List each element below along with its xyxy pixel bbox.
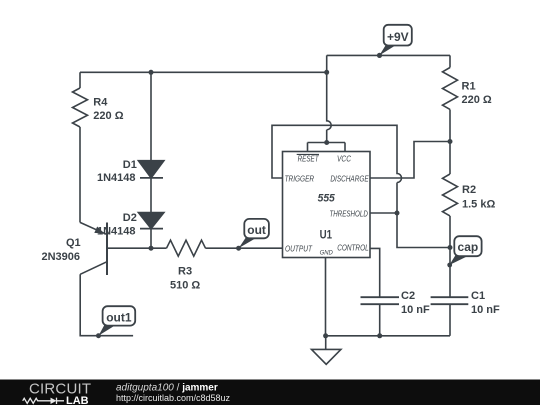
wire D2 cathode down to base net xyxy=(150,229,152,249)
svg-text:TRIGGER: TRIGGER xyxy=(285,174,315,183)
node dot RESET-VCC xyxy=(324,140,329,145)
U1 pin labels xyxy=(285,154,370,256)
svg-text:220 Ω: 220 Ω xyxy=(93,110,123,122)
svg-text:RESET: RESET xyxy=(298,155,320,164)
svg-text:C1: C1 xyxy=(471,290,485,302)
label D1 xyxy=(97,159,137,184)
resistor R4 xyxy=(73,88,88,127)
wire Q1 base to R3 xyxy=(107,247,167,249)
node dot D2/base/R3 xyxy=(149,246,154,251)
svg-text:D1: D1 xyxy=(123,159,137,171)
node dot C2 bottom xyxy=(377,333,382,338)
svg-text:C2: C2 xyxy=(401,290,415,302)
label R1 xyxy=(462,81,492,107)
wire D1 cathode to D2 anode xyxy=(150,178,152,213)
footer bar xyxy=(0,380,540,405)
capacitor C2 xyxy=(361,297,400,336)
wire DISCHARGE to R1-R2 junction xyxy=(370,142,450,179)
label C1 xyxy=(471,290,500,316)
logo waveform xyxy=(23,398,64,404)
svg-text:1.5 kΩ: 1.5 kΩ xyxy=(462,199,495,211)
label R2 xyxy=(462,184,495,211)
label D2 xyxy=(97,212,137,237)
svg-text:R1: R1 xyxy=(462,81,476,93)
node dot R1/R2/discharge xyxy=(448,139,453,144)
label Q1 xyxy=(42,237,81,263)
svg-text:out: out xyxy=(247,223,266,237)
flag cap xyxy=(447,236,481,267)
svg-text:OUTPUT: OUTPUT xyxy=(285,244,313,253)
svg-text:GND: GND xyxy=(320,249,333,256)
svg-text:DISCHARGE: DISCHARGE xyxy=(330,174,369,183)
wire R4 top stub xyxy=(79,72,81,88)
diode D2 xyxy=(138,213,164,229)
svg-text:D2: D2 xyxy=(123,212,137,224)
svg-text:220 Ω: 220 Ω xyxy=(462,94,492,106)
wire TRIGGER loop with hop xyxy=(272,125,450,247)
wire +9V vertical with hop xyxy=(327,55,332,142)
node dot left rail/+9V vertical xyxy=(324,70,329,75)
wire R3 to OUTPUT pin xyxy=(205,247,282,249)
label R3 xyxy=(170,266,200,292)
op box U1 555 xyxy=(283,152,371,258)
node dot GND bus xyxy=(323,333,328,338)
svg-text:1N4148: 1N4148 xyxy=(97,172,136,184)
diode D1 xyxy=(138,161,164,178)
flag +9V xyxy=(377,25,412,58)
resistor R1 xyxy=(443,55,458,141)
wire left rail horizontal xyxy=(80,71,327,73)
svg-text:Q1: Q1 xyxy=(66,237,81,249)
svg-text:THRESHOLD: THRESHOLD xyxy=(330,209,368,218)
resistor R3 xyxy=(167,240,206,256)
svg-text:510 Ω: 510 Ω xyxy=(170,280,200,292)
label R4 xyxy=(93,97,123,123)
node dot R2/C1/cap xyxy=(448,245,453,250)
svg-text:http://circuitlab.com/c8d58uz: http://circuitlab.com/c8d58uz xyxy=(116,393,231,403)
svg-text:CONTROL: CONTROL xyxy=(337,244,369,253)
ground symbol xyxy=(312,336,341,365)
node dot THRESHOLD xyxy=(395,211,400,216)
wire R4 bottom to Q1 emitter corner xyxy=(79,127,81,222)
wire D1 anode from left rail xyxy=(150,72,152,160)
svg-text:+9V: +9V xyxy=(387,30,409,44)
svg-text:U1: U1 xyxy=(320,227,333,241)
wire RESET stub xyxy=(307,143,309,152)
svg-text:555: 555 xyxy=(318,192,336,204)
transistor Q1 xyxy=(80,222,107,275)
node dot D1/left rail xyxy=(149,70,154,75)
resistor R2 xyxy=(443,142,458,248)
flag out1 xyxy=(96,306,135,338)
svg-text:R3: R3 xyxy=(178,266,192,278)
svg-text:out1: out1 xyxy=(106,311,132,325)
capacitor C1 xyxy=(431,248,469,336)
label C2 xyxy=(401,290,430,316)
svg-text:aditgupta100 / jammer: aditgupta100 / jammer xyxy=(116,382,218,393)
flag out xyxy=(236,219,269,251)
svg-text:LAB: LAB xyxy=(66,395,89,405)
svg-text:cap: cap xyxy=(458,240,479,254)
wire VCC stub xyxy=(344,143,346,152)
svg-text:10 nF: 10 nF xyxy=(401,304,430,316)
wire RESET-VCC connector xyxy=(308,142,346,144)
wire CONTROL stub down to C2 xyxy=(370,248,380,297)
wire GND stub xyxy=(325,258,327,336)
svg-text:R2: R2 xyxy=(462,184,476,196)
svg-text:1N4148: 1N4148 xyxy=(97,225,136,237)
wire THRESHOLD stub xyxy=(370,212,397,214)
svg-text:2N3906: 2N3906 xyxy=(42,251,81,263)
svg-text:10 nF: 10 nF xyxy=(471,304,500,316)
svg-text:VCC: VCC xyxy=(337,155,351,164)
wire ground bus xyxy=(326,335,451,337)
wire Q1 collector down and out1 net xyxy=(80,274,133,335)
svg-text:R4: R4 xyxy=(93,97,108,109)
wire +9V rail horizontal xyxy=(327,54,450,56)
